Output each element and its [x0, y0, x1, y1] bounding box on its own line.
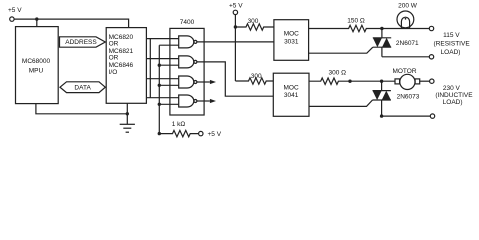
- node triac2 MT2: [380, 80, 383, 83]
- svg-text:115 V: 115 V: [443, 32, 460, 39]
- node 300 tap: [234, 25, 237, 28]
- wire gate3 output spare: [197, 81, 210, 83]
- triac Q1 2N6071: [373, 29, 430, 57]
- svg-text:OR: OR: [109, 55, 119, 62]
- svg-text:MC68000: MC68000: [22, 58, 51, 65]
- svg-text:MOTOR: MOTOR: [392, 68, 416, 75]
- svg-text:+5 V: +5 V: [229, 3, 243, 10]
- optocoupler U5 MOC3041: [273, 73, 309, 116]
- wire MOC3041 gate drive: [309, 100, 373, 106]
- gate G2 NAND: [179, 56, 197, 68]
- wire MOC3031 out + resistor R3 150: [309, 18, 430, 32]
- svg-text:2N6073: 2N6073: [397, 94, 420, 101]
- wire I/O out A2 to gate2: [146, 58, 178, 60]
- MPU U1 MC68000: [16, 27, 59, 104]
- wire gate3 B stub: [159, 84, 178, 86]
- svg-text:300: 300: [251, 73, 262, 80]
- svg-text:150 Ω: 150 Ω: [347, 18, 365, 25]
- svg-text:MOC: MOC: [284, 85, 299, 92]
- terminal T2: [429, 55, 433, 59]
- svg-text:3041: 3041: [284, 92, 299, 99]
- triac Q2 2N6073: [373, 81, 420, 116]
- I/O U2 MC6820/6821/6846: [106, 28, 146, 104]
- node MPU power junction: [35, 17, 38, 20]
- wire +5V rail mid: [234, 15, 236, 81]
- DATA bus arrow: [60, 82, 105, 93]
- resistor R1 300: [235, 18, 274, 30]
- +5V terminal mid: [229, 3, 243, 15]
- node gate2 B: [158, 63, 161, 66]
- wire gate4 B stub: [159, 103, 178, 105]
- label 230V load: [435, 85, 473, 106]
- svg-text:(INDUCTIVE: (INDUCTIVE: [435, 92, 473, 99]
- arrow gate3: [210, 80, 216, 84]
- svg-text:(RESISTIVE: (RESISTIVE: [434, 41, 471, 48]
- node ground junction: [126, 112, 129, 115]
- svg-text:OR: OR: [109, 40, 119, 47]
- wire bus line L1: [149, 39, 151, 98]
- resistor R2 300: [235, 73, 273, 84]
- gate G4 NAND: [179, 95, 197, 107]
- gate G3 NAND: [179, 76, 197, 88]
- node 1k corner: [158, 132, 161, 135]
- gate G1 NAND: [179, 36, 197, 48]
- wire I/O out A3 to gate3: [146, 78, 178, 80]
- optocoupler U4 MOC3031: [274, 20, 309, 61]
- svg-text:MOC: MOC: [284, 31, 299, 38]
- node gate4 B: [158, 103, 161, 106]
- wire MOC3031 gate drive: [309, 47, 373, 53]
- lamp 200W: [397, 3, 418, 28]
- ground: [120, 103, 135, 132]
- node gate3 B: [158, 84, 161, 87]
- arrow gate4: [210, 99, 216, 103]
- wire enable line L2 to 1k pull-up: [159, 45, 178, 133]
- svg-text:300: 300: [248, 18, 259, 25]
- wire gate4 output spare: [197, 100, 210, 102]
- svg-text:+5 V: +5 V: [8, 7, 22, 14]
- terminal T4: [430, 114, 434, 118]
- resistor R4 1 kOhm: [159, 121, 198, 137]
- svg-text:MPU: MPU: [29, 67, 44, 74]
- terminal T3: [430, 79, 434, 83]
- svg-text:+5 V: +5 V: [208, 131, 222, 138]
- svg-text:1 kΩ: 1 kΩ: [172, 121, 186, 128]
- wire gate1 output to MOC3031: [197, 41, 274, 43]
- svg-text:2N6071: 2N6071: [396, 40, 419, 47]
- svg-text:LOAD): LOAD): [441, 49, 461, 56]
- svg-text:3031: 3031: [284, 38, 299, 45]
- svg-text:7400: 7400: [180, 19, 195, 26]
- svg-text:LOAD): LOAD): [443, 99, 463, 106]
- svg-text:ADDRESS: ADDRESS: [65, 39, 97, 46]
- svg-text:200 W: 200 W: [398, 3, 418, 10]
- svg-text:230 V: 230 V: [443, 85, 461, 92]
- wire MOC3041 out + resistor R5 300: [309, 70, 395, 85]
- node triac1 MT2: [380, 27, 383, 30]
- wire I/O out A4 to gate4: [146, 97, 178, 99]
- svg-text:DATA: DATA: [74, 84, 91, 91]
- terminal T1: [429, 26, 433, 30]
- node motor branch: [348, 80, 351, 83]
- label 115V load: [434, 32, 471, 56]
- node triac2 MT1: [380, 114, 383, 117]
- wire +5V rail to I/O box top: [14, 19, 129, 28]
- wire MPU ground return: [36, 104, 127, 114]
- wire I/O out A1 to gate1: [146, 38, 178, 40]
- wire to T4: [382, 115, 431, 117]
- wire gate2 output to MOC3041: [197, 62, 273, 96]
- wire gate2 B stub: [159, 64, 178, 66]
- svg-text:I/O: I/O: [109, 69, 118, 76]
- motor M: [392, 68, 429, 90]
- +5V terminal at 1k: [199, 131, 222, 138]
- IC U3 7400 box: [170, 19, 204, 115]
- wire junction to MPU top: [36, 19, 38, 27]
- svg-text:300 Ω: 300 Ω: [329, 70, 347, 77]
- +5V terminal left: [8, 7, 22, 21]
- ADDRESS bus arrow: [60, 37, 106, 47]
